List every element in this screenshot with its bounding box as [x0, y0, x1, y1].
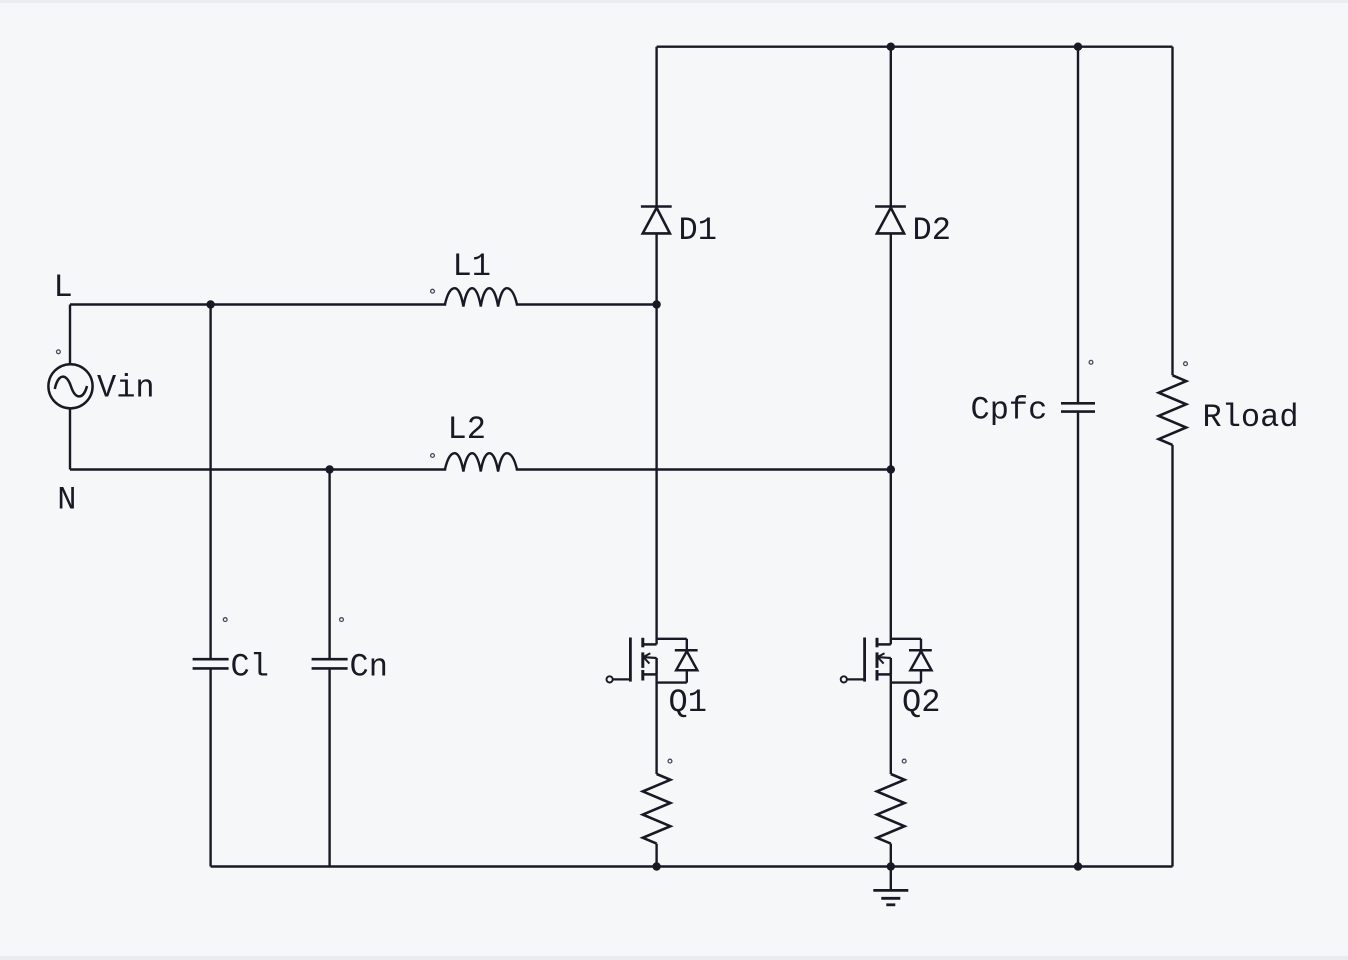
diode D2 [875, 205, 906, 208]
node junction R1 / bottom rail [652, 862, 660, 870]
svg-text:Cpfc: Cpfc [971, 392, 1048, 429]
pin marker Cl [223, 618, 227, 622]
wire Cl top lead [209, 305, 211, 660]
wire D2 branch upper [890, 47, 892, 207]
pin marker R1 [668, 759, 672, 763]
node junction L2 / D2-Q2 branch [887, 465, 895, 473]
pin marker L1 [431, 289, 435, 293]
svg-text:Q2: Q2 [902, 684, 940, 721]
diode D1 [641, 205, 672, 208]
svg-text:Rload: Rload [1203, 399, 1299, 436]
wire bottom rail [211, 865, 1173, 867]
wire Cpfc bottom lead [1077, 412, 1079, 867]
svg-text:Cl: Cl [231, 649, 269, 686]
svg-text:Q1: Q1 [669, 684, 707, 721]
node junction top rail / D2 branch [887, 43, 895, 51]
node junction L line / Cl [206, 300, 214, 308]
resistor R2 (Q2 source) with leads [890, 674, 892, 774]
svg-text:L2: L2 [448, 411, 486, 448]
voltage source Vin [48, 364, 92, 408]
node junction Cpfc / bottom rail [1074, 862, 1082, 870]
capacitor Cn [312, 658, 348, 661]
pin marker Rload [1184, 362, 1188, 366]
wire D1 branch upper [655, 47, 657, 207]
svg-text:N: N [57, 482, 76, 519]
wire Cpfc top lead [1077, 47, 1079, 404]
wire Vin bottom lead [69, 408, 71, 469]
wire Q2 drain lead [890, 470, 892, 645]
svg-text:L: L [54, 269, 73, 306]
inductor L1 [445, 288, 517, 306]
wire L line right segment [516, 303, 657, 305]
transistor Q2 [841, 676, 847, 682]
pin marker Cn [340, 618, 344, 622]
inductor L2 [445, 453, 517, 471]
capacitor Cl [193, 658, 229, 661]
node junction L1 / D1-Q1 branch [652, 300, 660, 308]
node junction N line / Cn [325, 465, 333, 473]
resistor R1 (Q1 source) with leads [655, 674, 657, 774]
ground [890, 867, 892, 891]
pin marker L2 [431, 454, 435, 458]
svg-text:D1: D1 [679, 212, 717, 249]
node junction R2 / ground / bottom rail [887, 862, 895, 870]
pin marker Vin [57, 350, 61, 354]
svg-text:Vin: Vin [97, 370, 155, 407]
node junction top rail / Cpfc [1074, 43, 1082, 51]
wire Cl bottom lead [209, 668, 211, 866]
wire Vin top lead [69, 305, 71, 365]
svg-text:D2: D2 [913, 212, 951, 249]
resistor Rload with leads [1171, 47, 1173, 376]
wire Cn bottom lead [328, 668, 330, 866]
wire top DC rail [657, 46, 1173, 48]
wire Q1 drain lead [655, 305, 657, 645]
body diode Q1 [657, 638, 687, 640]
capacitor Cpfc [1061, 402, 1095, 405]
svg-text:Cn: Cn [350, 649, 388, 686]
wire D2 to L2 node [890, 233, 892, 469]
wire N line right segment [516, 468, 891, 470]
wire N line left segment [70, 468, 446, 470]
svg-text:L1: L1 [453, 248, 491, 285]
body diode Q2 [891, 638, 921, 640]
pin marker R2 [902, 759, 906, 763]
pin marker Cpfc [1089, 360, 1093, 364]
transistor Q1 [607, 676, 613, 682]
wire Cn top lead [328, 470, 330, 660]
wire L line left segment [70, 303, 446, 305]
wire D1 to L1 node [655, 233, 657, 304]
